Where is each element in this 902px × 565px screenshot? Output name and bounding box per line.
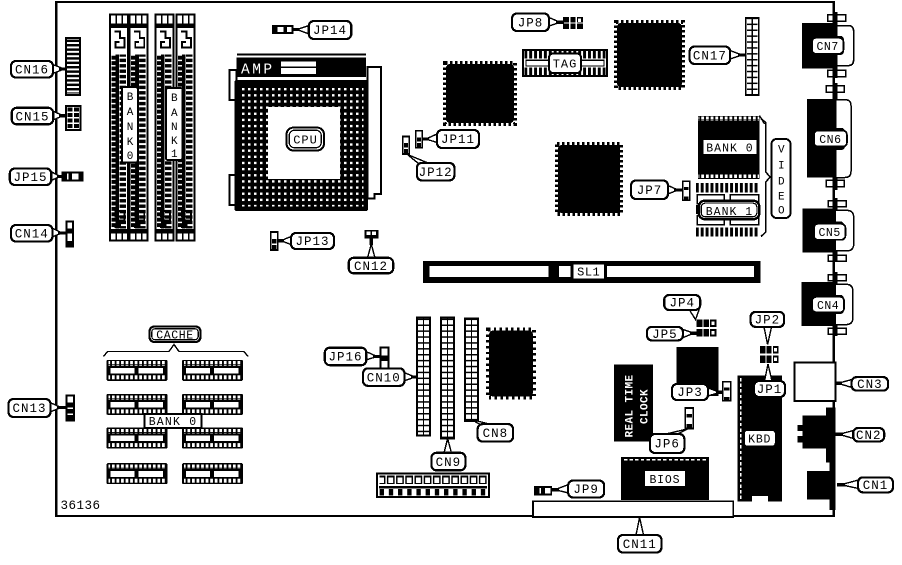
svg-text:JP8: JP8 (518, 16, 544, 30)
svg-text:CLOCK: CLOCK (640, 389, 652, 424)
svg-text:CN3: CN3 (857, 378, 883, 392)
svg-text:CN8: CN8 (483, 427, 509, 441)
video memory BANK 1 sockets (696, 183, 759, 237)
connector CN1 (807, 460, 836, 510)
slot CN9-slot (441, 318, 454, 439)
callout label CN11 (618, 518, 662, 553)
callout label JP2 (751, 312, 785, 345)
svg-text:CN15: CN15 (15, 110, 49, 124)
callout label CN10 (363, 368, 418, 386)
bottom pin-header connector (377, 474, 489, 498)
label BANK 0 (video) (703, 139, 758, 155)
callout label CN16 (11, 61, 67, 78)
connector CN17 (746, 18, 759, 95)
callout label JP9 (551, 481, 604, 498)
svg-text:JP6: JP6 (654, 438, 680, 452)
callout label JP1 (754, 364, 785, 397)
svg-text:CN17: CN17 (693, 49, 727, 63)
svg-text:BIOS: BIOS (649, 474, 680, 487)
jumper JP11 (416, 131, 423, 148)
svg-text:A: A (171, 108, 178, 120)
callout label CN8 (472, 420, 514, 442)
CPU retention bar outline (237, 54, 366, 56)
svg-text:E: E (778, 192, 785, 204)
svg-text:JP12: JP12 (419, 166, 453, 180)
svg-text:JP11: JP11 (441, 133, 475, 147)
label CPU (287, 128, 325, 151)
callout label JP14 (292, 21, 351, 39)
callout label CN2 (836, 428, 885, 443)
slot CN10-slot (417, 318, 430, 436)
jumpers JP4/JP5 block (696, 319, 716, 336)
svg-text:CN7: CN7 (817, 41, 839, 54)
brace cache (104, 345, 249, 357)
svg-text:REAL TIME: REAL TIME (625, 374, 637, 437)
callout label JP5 (647, 327, 697, 342)
connector CN2 (798, 407, 836, 462)
cache DIP socket XC7 (107, 463, 168, 484)
svg-text:K: K (127, 137, 134, 149)
jumper CN13 (67, 396, 75, 421)
svg-text:JP1: JP1 (757, 383, 783, 397)
cache DIP socket XC8 (182, 463, 243, 484)
svg-text:1: 1 (171, 149, 178, 161)
slot SL1 (423, 261, 761, 283)
jumper JP12 (403, 137, 410, 155)
label BANK 1 (video) (699, 201, 760, 220)
callout label CN3 (835, 377, 888, 392)
svg-text:CN12: CN12 (354, 260, 388, 274)
svg-text:36136: 36136 (61, 499, 101, 513)
connector CN15 (66, 106, 81, 130)
cache DIP socket XC1 (107, 360, 168, 381)
connector CN4 (801, 272, 853, 336)
svg-text:JP4: JP4 (669, 297, 695, 311)
connector CN3 (PS/2) (794, 363, 835, 401)
svg-text:JP13: JP13 (295, 235, 329, 249)
callout label JP7 (631, 181, 683, 200)
svg-text:A: A (127, 107, 134, 119)
SIMM socket slot 3 (156, 15, 174, 241)
jumper JP7 (683, 181, 690, 200)
callout label JP16 (325, 348, 381, 366)
svg-text:D: D (778, 177, 785, 189)
chip U-top-right (QFP) (616, 22, 683, 88)
KBD controller chip (737, 376, 782, 502)
svg-text:JP14: JP14 (313, 24, 347, 38)
callout label CN9 (431, 439, 465, 471)
cache DIP socket XC5 (107, 428, 168, 449)
connector CN6 (807, 83, 851, 190)
svg-text:KBD: KBD (748, 434, 771, 447)
CPU socket left tab lower (230, 175, 237, 205)
callout label JP3 (672, 384, 723, 400)
svg-text:JP7: JP7 (637, 184, 663, 198)
jumper CN14 (67, 222, 74, 247)
svg-text:B: B (171, 93, 178, 105)
callout label CN4 (812, 297, 844, 313)
callout label CN7 (812, 38, 844, 54)
TAG RAM socket (523, 50, 607, 76)
svg-text:K: K (171, 136, 178, 148)
svg-text:JP2: JP2 (755, 314, 781, 328)
AMP heatsink bar (237, 58, 367, 79)
svg-text:CN9: CN9 (436, 456, 462, 470)
video memory BANK 0 chip (698, 116, 765, 180)
connector CN12 (365, 230, 379, 239)
label BANK 0 (SIMM) (122, 87, 138, 163)
svg-text:JP16: JP16 (329, 351, 363, 365)
svg-text:SL1: SL1 (577, 266, 600, 280)
callout label JP11 (422, 130, 479, 148)
chip U-bottom (near CN8) (488, 330, 534, 398)
svg-text:CN4: CN4 (817, 300, 839, 313)
svg-text:CN5: CN5 (819, 227, 841, 240)
jumpers JP2/JP1 block (760, 346, 779, 363)
svg-text:AMP: AMP (241, 63, 275, 79)
board outline (56, 2, 834, 516)
svg-text:I: I (778, 161, 785, 173)
jumper JP3-jumper (723, 382, 731, 401)
cache DIP socket XC6 (182, 428, 243, 449)
callout label CN5 (814, 224, 846, 240)
callout label CN12 (349, 239, 394, 274)
svg-text:TAG: TAG (553, 58, 578, 72)
svg-text:CPU: CPU (293, 134, 318, 148)
svg-text:N: N (171, 122, 178, 134)
svg-text:CN14: CN14 (15, 227, 49, 241)
CPU PGA socket U? (235, 80, 369, 211)
svg-text:JP3: JP3 (677, 386, 703, 400)
svg-text:CN1: CN1 (863, 479, 889, 493)
jumper JP14 (273, 26, 293, 33)
svg-text:CN11: CN11 (623, 538, 657, 552)
connector CN11 (power) (533, 501, 733, 517)
jumper JP13 (271, 232, 278, 250)
svg-text:JP15: JP15 (14, 171, 48, 185)
CPU ZIF lever bar (368, 67, 382, 199)
RTC chip REAL TIME CLOCK (614, 365, 653, 442)
chip U (above JP3) (677, 347, 719, 396)
svg-text:N: N (127, 122, 134, 134)
SIMM socket slot 2 (130, 15, 148, 241)
svg-text:O: O (778, 206, 785, 218)
callout label CN1 (837, 477, 893, 493)
jumper JP8 (563, 17, 583, 29)
label BANK 0 (cache) (145, 414, 202, 429)
CPU socket left tab upper (230, 70, 237, 100)
jumper JP15 (63, 173, 83, 181)
BIOS chip (621, 457, 709, 500)
brace video (761, 119, 770, 237)
svg-text:JP5: JP5 (652, 328, 678, 342)
svg-text:CACHE: CACHE (156, 330, 194, 343)
label VIDEO (772, 139, 791, 218)
jumper JP6-jumper (685, 408, 693, 429)
svg-text:BANK 0: BANK 0 (706, 142, 753, 155)
connector CN5 (803, 198, 854, 262)
svg-text:CN2: CN2 (856, 429, 882, 443)
SIMM socket slot 1 (110, 15, 128, 241)
svg-text:V: V (778, 145, 785, 157)
label BANK 1 (SIMM) (166, 88, 183, 161)
cache DIP socket XC2 (182, 360, 243, 381)
callout label JP8 (512, 14, 564, 32)
callout label CN17 (690, 47, 746, 65)
slot CN8-slot (465, 319, 478, 422)
svg-text:JP9: JP9 (573, 483, 599, 497)
jumper JP16 (381, 348, 389, 369)
callout label CN13 (9, 399, 67, 417)
callout label CN6 (814, 131, 847, 147)
svg-text:0: 0 (127, 151, 134, 163)
label KBD (744, 430, 776, 447)
jumper JP9 (535, 487, 552, 495)
chip U-mid2 (QFP) (557, 144, 621, 214)
svg-text:BANK 0: BANK 0 (149, 416, 198, 429)
connector CN16 (66, 38, 80, 95)
callout label CN14 (11, 225, 66, 242)
callout label JP12 (408, 155, 455, 181)
callout label JP4 (664, 295, 700, 320)
svg-text:CN16: CN16 (15, 63, 49, 77)
svg-text:CN13: CN13 (12, 402, 46, 416)
cache DIP socket XC3 (107, 394, 168, 415)
callout label JP6 (650, 429, 688, 453)
svg-text:BANK 1: BANK 1 (706, 206, 753, 219)
label SL1 (573, 264, 606, 280)
cache DIP socket XC4 (182, 394, 243, 415)
chip U-mid1 (QFP) (445, 63, 515, 124)
callout label JP15 (10, 169, 63, 186)
svg-text:B: B (127, 92, 134, 104)
svg-text:CN10: CN10 (367, 371, 401, 385)
SIMM socket slot 4 (177, 15, 195, 241)
callout label JP13 (278, 233, 334, 249)
svg-text:CN6: CN6 (819, 134, 841, 147)
callout label CN15 (12, 108, 66, 125)
connector CN7 (802, 12, 854, 78)
label TAG (549, 54, 581, 74)
label CACHE (150, 327, 201, 343)
